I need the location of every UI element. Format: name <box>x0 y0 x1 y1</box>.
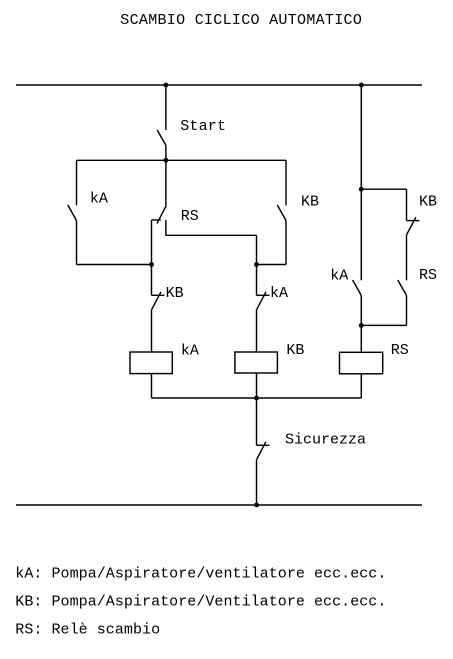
svg-text:kA: kA <box>90 191 108 208</box>
coil kA <box>130 352 172 374</box>
wire: top bus of kA/KB latching parallel group <box>77 159 287 161</box>
node: junction to KB-RS series branch <box>359 187 364 192</box>
wire: down to middle column node <box>256 235 258 264</box>
node: junction of series branch return <box>359 323 364 328</box>
svg-text:kA: Pompa/Aspiratore/ventilato: kA: Pompa/Aspiratore/ventilatore ecc.ecc… <box>15 565 386 582</box>
wire: below RS contact <box>406 296 408 326</box>
node: junction of RS branch on top rail <box>359 83 364 88</box>
node: junction on coil rail <box>254 396 259 401</box>
svg-text:RS: RS <box>391 342 409 359</box>
coil KB <box>235 352 278 373</box>
wire: common of RS changeover from node <box>165 160 167 206</box>
svg-text:SCAMBIO CICLICO AUTOMATICO: SCAMBIO CICLICO AUTOMATICO <box>120 12 362 29</box>
contact kA (NC interlock) tick <box>257 294 270 296</box>
wire: middle column down to kA interlock contact <box>256 265 258 296</box>
wire: bottom supply rail <box>16 504 422 506</box>
wire: right leg down to KB contact <box>285 160 287 205</box>
wire: left leg down to kA contact <box>76 160 78 205</box>
coil RS <box>340 352 383 374</box>
contact kA (NO, latch branch) blade <box>68 205 77 221</box>
wire: RS left throw down to left column node <box>151 220 153 265</box>
svg-text:RS: RS <box>419 267 437 284</box>
node: junction on bottom rail <box>254 503 259 508</box>
wire: below kA coil to coil rail <box>151 374 153 398</box>
wire: below KB interlock to kA coil <box>151 310 153 352</box>
wire: over to KB-RS series branch <box>361 188 406 190</box>
wire: below kA interlock to KB coil <box>256 310 258 352</box>
wire: coil bottom rail <box>152 397 362 399</box>
wire: from top rail down to Start contact <box>165 85 167 130</box>
wire: between KB and RS contacts <box>406 235 408 281</box>
switch Start (NO pushbutton blade) <box>157 130 166 145</box>
node: junction below Start <box>164 158 169 163</box>
wire: below kA contact <box>76 221 78 265</box>
svg-text:RS: RS <box>181 208 199 225</box>
wire: bottom of kA latch branch to left column <box>77 264 152 266</box>
svg-text:KB: KB <box>166 285 184 302</box>
contact kA (NC interlock) blade <box>257 292 266 310</box>
wire: below KB coil to coil rail <box>256 373 258 398</box>
contact Sicurezza (NC) blade <box>257 442 266 460</box>
wire: bottom of KB latch branch to middle column <box>257 264 287 266</box>
wire: series branch back to main right column <box>361 324 406 326</box>
node: junction of Start branch on top rail <box>164 83 169 88</box>
contact KB (NO, latch branch) blade <box>277 205 286 221</box>
svg-text:Sicurezza: Sicurezza <box>285 432 366 449</box>
contact KB (NC interlock) blade <box>152 292 161 310</box>
wire: RS right throw vertical <box>165 220 167 235</box>
svg-text:kA: kA <box>330 267 348 284</box>
contact kA (NO holding, right column) blade <box>353 280 362 296</box>
contact RS changeover blade <box>157 206 166 224</box>
wire: below Sicurezza to bottom rail <box>256 460 258 505</box>
wire: Start contact to parallel-group node <box>165 145 167 160</box>
svg-text:Start: Start <box>180 118 226 135</box>
node: left column junction <box>149 262 154 267</box>
wire: RS right throw horizontal to middle column <box>166 234 257 236</box>
wire: right branch from top rail down (through kA holding contact) <box>360 85 362 280</box>
svg-text:KB: Pompa/Aspiratore/Ventilato: KB: Pompa/Aspiratore/Ventilatore ecc.ecc… <box>15 593 386 610</box>
svg-text:KB: KB <box>286 342 304 359</box>
wire: below RS coil to coil rail <box>360 374 362 398</box>
wire: down to Sicurezza contact <box>256 398 258 445</box>
contact KB (NC, series branch) blade <box>407 217 416 235</box>
svg-text:RS: Relè scambio: RS: Relè scambio <box>15 621 160 638</box>
contact Sicurezza (NC) tick <box>257 444 270 446</box>
wire: below kA holding contact to RS coil <box>360 296 362 353</box>
contact RS left throw tick <box>152 219 161 221</box>
wire: top supply rail <box>16 84 422 86</box>
node: middle column junction <box>254 262 259 267</box>
contact KB (NC interlock) tick <box>152 294 165 296</box>
svg-text:KB: KB <box>301 194 319 211</box>
svg-text:kA: kA <box>270 285 288 302</box>
svg-text:kA: kA <box>181 342 199 359</box>
wire: left column down to KB interlock contact <box>151 265 153 296</box>
svg-text:KB: KB <box>419 194 437 211</box>
contact RS (NO, series branch) blade <box>398 280 407 296</box>
contact KB (NC, series branch) tick <box>407 220 420 222</box>
wire: series branch down to KB contact <box>406 189 408 220</box>
wire: below KB contact <box>285 221 287 265</box>
